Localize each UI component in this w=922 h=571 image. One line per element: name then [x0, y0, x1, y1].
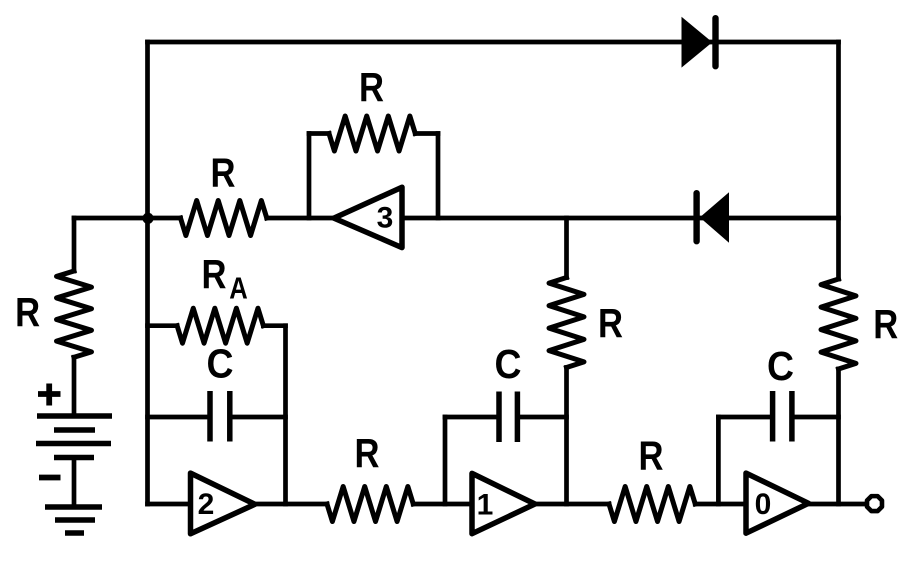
svg-text:R: R: [359, 64, 384, 110]
svg-text:R: R: [639, 433, 664, 479]
svg-text:1: 1: [477, 488, 494, 521]
svg-text:C: C: [207, 341, 234, 387]
svg-text:0: 0: [755, 488, 772, 521]
svg-text:R: R: [873, 301, 898, 347]
svg-text:C: C: [495, 341, 522, 387]
svg-text:R: R: [202, 251, 227, 297]
svg-text:R: R: [211, 150, 236, 196]
svg-text:C: C: [767, 343, 794, 389]
svg-text:A: A: [229, 270, 248, 305]
svg-text:2: 2: [198, 488, 215, 521]
svg-text:R: R: [355, 430, 380, 476]
svg-text:R: R: [598, 300, 623, 346]
svg-text:R: R: [15, 289, 40, 335]
svg-text:3: 3: [377, 201, 394, 234]
